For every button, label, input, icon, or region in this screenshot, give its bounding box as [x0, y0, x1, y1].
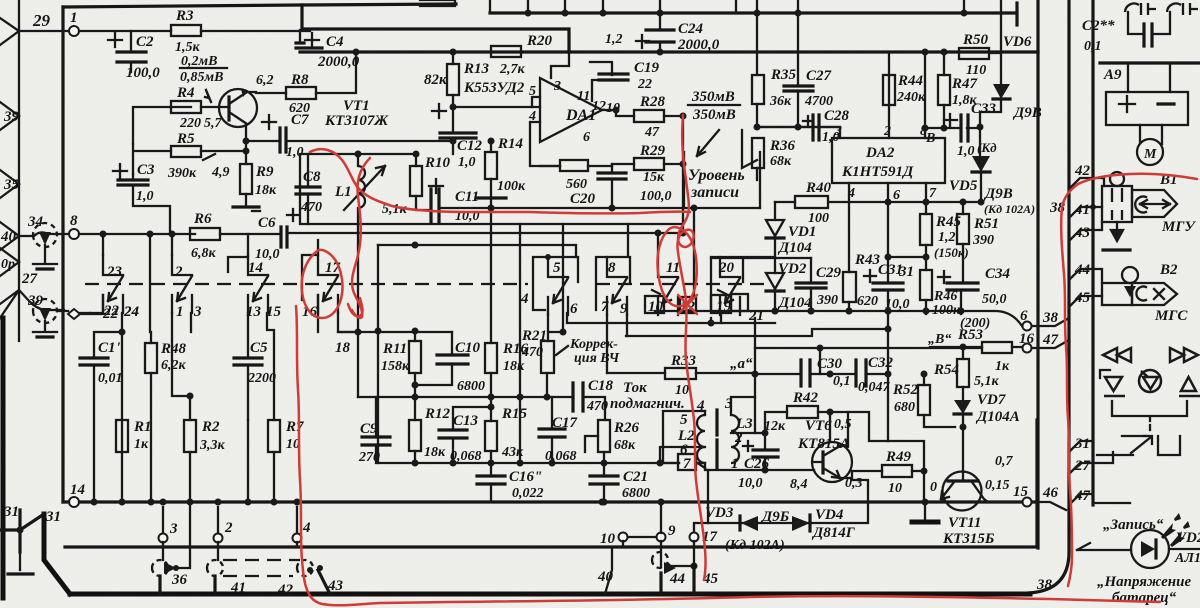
- svg-text:C4: C4: [326, 34, 344, 50]
- resistor R28: [634, 110, 664, 122]
- svg-text:VD4: VD4: [815, 507, 844, 523]
- svg-text:100,0: 100,0: [126, 65, 160, 81]
- svg-text:АЛ102: АЛ102: [1174, 551, 1200, 566]
- svg-text:(Кд: (Кд: [977, 140, 997, 155]
- capacitor C29: [810, 258, 812, 311]
- svg-text:0,047: 0,047: [858, 380, 891, 395]
- svg-text:15к: 15к: [643, 170, 665, 185]
- wire emitter to R9: [245, 151, 247, 164]
- svg-text:6,2: 6,2: [256, 73, 274, 88]
- wire 3 column: [190, 313, 192, 332]
- wire r35 c27 join: [757, 126, 840, 128]
- svg-text:DA2: DA2: [865, 145, 895, 161]
- svg-text:6,8к: 6,8к: [191, 246, 217, 261]
- svg-text:R2: R2: [201, 419, 220, 435]
- svg-text:1,0: 1,0: [957, 144, 975, 159]
- node a: [752, 371, 759, 378]
- svg-text:20: 20: [718, 260, 735, 276]
- capacitor C5: [247, 313, 249, 420]
- svg-text:C28: C28: [824, 108, 850, 124]
- svg-text:1: 1: [176, 304, 184, 320]
- svg-text:10: 10: [888, 481, 902, 496]
- head B2: [1122, 267, 1138, 283]
- battery A9 box: [1106, 92, 1188, 125]
- transistor VT6: [812, 442, 852, 482]
- svg-text:Д814Г: Д814Г: [811, 525, 856, 541]
- svg-text:6: 6: [893, 188, 900, 203]
- wire y348: [755, 347, 982, 349]
- svg-text:1,0: 1,0: [136, 189, 154, 204]
- resistor R16: [485, 343, 497, 373]
- node circles 10 9 17: [619, 533, 628, 542]
- switch 14: [248, 255, 268, 313]
- svg-text:22: 22: [103, 303, 120, 319]
- svg-text:C1": C1": [98, 340, 124, 356]
- svg-text:2: 2: [734, 430, 743, 446]
- red loop sw17: [302, 250, 343, 318]
- resistor R3: [171, 25, 201, 36]
- wire y311: [655, 311, 1022, 326]
- wire mic2 to diamond: [57, 311, 105, 314]
- resistor R46: [920, 270, 932, 300]
- svg-text:5,7: 5,7: [204, 116, 223, 131]
- svg-text:(Кд 102А): (Кд 102А): [984, 202, 1035, 216]
- svg-text:470: 470: [521, 345, 543, 360]
- svg-text:1к: 1к: [134, 437, 149, 452]
- head B1 box: [1102, 186, 1132, 222]
- top cut resistor: [420, 0, 455, 6]
- top right cap plate: [1001, 12, 1014, 14]
- svg-text:R29: R29: [639, 143, 666, 159]
- svg-text:5: 5: [529, 84, 536, 99]
- svg-text:6: 6: [583, 130, 590, 145]
- main vertical bus right panel: [1091, 0, 1094, 505]
- wire 18 terminal: [338, 313, 358, 332]
- dashed actuator line row1: [85, 283, 528, 285]
- svg-text:350мВ: 350мВ: [691, 89, 735, 105]
- capacitor C19: [590, 62, 612, 101]
- DA2 box: [832, 138, 945, 183]
- bus input y234: [79, 233, 195, 235]
- DA1 pin4: [530, 122, 560, 166]
- wire 31 stub: [0, 510, 44, 552]
- svg-text:Д9Б: Д9Б: [760, 509, 790, 525]
- svg-text:R6: R6: [193, 211, 212, 227]
- svg-text:6800: 6800: [457, 379, 485, 394]
- head coil symbol top1: [1125, 3, 1156, 15]
- boxed terminals: [645, 296, 664, 313]
- svg-text:Уровень: Уровень: [688, 167, 745, 184]
- svg-text:270: 270: [358, 450, 380, 465]
- svg-text:R49: R49: [885, 449, 912, 465]
- arrows: [1161, 523, 1176, 539]
- svg-text:L1: L1: [334, 184, 352, 200]
- wire R4 left loop: [133, 107, 191, 144]
- svg-text:R26: R26: [613, 420, 640, 436]
- bus y52 with C4: [300, 50, 569, 53]
- svg-text:1,5к: 1,5к: [175, 40, 201, 55]
- wire bus node14 y502: [63, 500, 1037, 503]
- transistor VT11: [962, 427, 964, 481]
- svg-text:C2: C2: [136, 34, 154, 50]
- wire R33: [607, 372, 755, 374]
- svg-text:C32: C32: [868, 355, 894, 371]
- svg-text:29: 29: [32, 11, 51, 30]
- microphone 2 dashed circle: [33, 299, 57, 323]
- svg-text:0,7: 0,7: [995, 454, 1014, 469]
- wire main block top border: [63, 4, 456, 7]
- capacitor C4: [305, 33, 319, 47]
- svg-text:40: 40: [0, 229, 17, 245]
- svg-text:7: 7: [929, 186, 937, 201]
- wire pin4 down to R43: [848, 183, 850, 272]
- svg-text:0,1: 0,1: [1084, 39, 1102, 54]
- wire y433 from a: [755, 432, 765, 434]
- svg-text:47: 47: [644, 125, 660, 140]
- connector stub 39a: [0, 102, 19, 130]
- node 8 diamond: [68, 309, 80, 319]
- resistor R35: [752, 75, 764, 104]
- resistor R1: [116, 420, 128, 452]
- svg-text:5: 5: [680, 412, 688, 428]
- core dashes: [715, 410, 718, 468]
- svg-text:1,2: 1,2: [605, 32, 623, 47]
- mic1 ground: [33, 245, 57, 264]
- capacitor C28: [813, 115, 819, 140]
- switch 2: [172, 255, 192, 313]
- svg-text:4: 4: [302, 520, 311, 536]
- switch 5: [548, 257, 568, 315]
- svg-text:18к: 18к: [255, 183, 277, 198]
- svg-text:записи: записи: [690, 184, 739, 201]
- svg-text:К553УД2: К553УД2: [463, 80, 525, 96]
- switch 11: [658, 257, 678, 315]
- wire 31: [888, 256, 926, 258]
- wire VD3 VD4: [694, 480, 868, 533]
- svg-text:0,1: 0,1: [833, 374, 851, 389]
- svg-text:0,022: 0,022: [512, 486, 544, 501]
- svg-text:23: 23: [106, 264, 123, 280]
- svg-text:R35: R35: [770, 67, 797, 83]
- svg-text:„В“: „В“: [928, 332, 951, 347]
- svg-text:R7: R7: [285, 419, 304, 435]
- capacitor C9: [375, 397, 377, 463]
- svg-text:R15: R15: [501, 406, 528, 422]
- switch 20 housing: [711, 257, 775, 310]
- svg-text:0,01: 0,01: [98, 371, 123, 386]
- svg-text:4,9: 4,9: [211, 165, 230, 180]
- resistor R48: [145, 343, 157, 373]
- transistor VT1: [219, 89, 257, 127]
- svg-text:31: 31: [898, 264, 914, 280]
- wire DA1 out: [602, 109, 616, 111]
- capacitor C10: [415, 332, 452, 385]
- long wire y202: [775, 201, 963, 203]
- svg-text:2000,0: 2000,0: [677, 37, 720, 53]
- wire pin6 down: [887, 183, 889, 441]
- svg-text:6,2к: 6,2к: [161, 358, 187, 373]
- wire R5 left: [133, 144, 171, 174]
- svg-text:6800: 6800: [622, 486, 650, 501]
- node 14: [69, 497, 79, 507]
- svg-text:КТ3107Ж: КТ3107Ж: [324, 113, 389, 129]
- svg-text:8: 8: [608, 260, 616, 276]
- head B1 arrow: [1132, 190, 1177, 217]
- bus y397: [358, 397, 605, 420]
- mic2 lead: [19, 290, 64, 310]
- svg-text:(Кд 102А): (Кд 102А): [725, 538, 785, 553]
- svg-text:МГУ: МГУ: [1161, 219, 1196, 235]
- wire bottom-left chamfer: [44, 514, 70, 594]
- svg-text:C5: C5: [250, 340, 268, 356]
- svg-text:31: 31: [3, 504, 19, 520]
- svg-text:VD1: VD1: [788, 224, 816, 240]
- wire y258: [711, 257, 811, 259]
- lamp 44: [652, 552, 668, 568]
- svg-text:C13: C13: [453, 413, 479, 429]
- resistor R2: [184, 420, 196, 452]
- wire uroven wiper down: [693, 208, 695, 296]
- buttons rewind left: [1103, 348, 1200, 396]
- svg-text:8: 8: [70, 213, 78, 229]
- capacitor C11: [431, 189, 439, 222]
- A9 border: [1100, 61, 1200, 64]
- connector stub 39b: [0, 290, 19, 318]
- svg-text:C21: C21: [623, 469, 648, 485]
- lower transformer wire: [707, 470, 709, 523]
- svg-text:36: 36: [171, 572, 188, 588]
- svg-text:0,5: 0,5: [834, 417, 852, 432]
- svg-text:C10: C10: [455, 340, 481, 356]
- capacitor C3: [133, 174, 170, 234]
- node circles 3 2 4: [159, 534, 168, 543]
- svg-text:R48: R48: [160, 341, 187, 357]
- svg-text:470: 470: [586, 399, 608, 414]
- resistor R15: [485, 421, 497, 451]
- svg-text:240к: 240к: [896, 90, 926, 105]
- svg-text:C29: C29: [816, 265, 842, 281]
- svg-text:C33: C33: [971, 101, 997, 117]
- svg-text:560: 560: [566, 177, 587, 192]
- svg-text:2,7к: 2,7к: [499, 62, 526, 77]
- top bus y13: [490, 11, 1015, 14]
- diode VD4: [792, 516, 810, 531]
- head coil symbol top2: [1167, 3, 1198, 15]
- svg-text:41: 41: [230, 580, 246, 596]
- resistor R20: [491, 46, 521, 57]
- svg-text:Д9В: Д9В: [1012, 105, 1042, 121]
- svg-text:C27: C27: [806, 68, 832, 84]
- svg-text:R47: R47: [951, 76, 978, 92]
- resistor R23 560: [560, 160, 588, 171]
- lamp 36: [152, 560, 168, 576]
- svg-text:390: 390: [816, 293, 838, 308]
- capacitor C27: [797, 13, 799, 127]
- svg-text:2200: 2200: [247, 371, 276, 386]
- diode VD7: [954, 400, 971, 414]
- svg-text:8,4: 8,4: [790, 477, 808, 492]
- R36 arrow wire: [742, 130, 757, 168]
- wire y374: [755, 373, 888, 375]
- resistor R9: [240, 164, 252, 194]
- svg-text:C18: C18: [588, 378, 614, 394]
- svg-text:R42: R42: [792, 390, 819, 406]
- terminal 7 box: [678, 454, 696, 470]
- resistor R26: [598, 420, 610, 452]
- svg-text:VT11: VT11: [948, 515, 981, 531]
- svg-text:Д9В: Д9В: [983, 186, 1013, 202]
- head B1 ground: [1111, 222, 1123, 241]
- node 8 circle: [69, 229, 79, 239]
- resistor R7: [268, 420, 280, 452]
- red cross sw12 box: [678, 295, 697, 314]
- wire R4 to base: [201, 106, 229, 108]
- svg-text:C30: C30: [817, 356, 843, 372]
- svg-text:68к: 68к: [614, 438, 636, 453]
- svg-text:100к: 100к: [497, 179, 526, 194]
- wire R8 to C4 bus: [316, 52, 356, 93]
- svg-text:подмагнич.: подмагнич.: [610, 396, 685, 412]
- svg-text:4700: 4700: [804, 94, 833, 109]
- capacitor C16: [490, 463, 492, 502]
- motor: [1137, 139, 1163, 165]
- wire inner border step to DA1: [302, 5, 569, 52]
- svg-text:390: 390: [972, 233, 994, 248]
- svg-text:12: 12: [592, 99, 606, 114]
- mic1 arrow: [39, 232, 51, 245]
- svg-text:C6: C6: [258, 215, 276, 231]
- svg-text:43: 43: [327, 578, 344, 594]
- node 1 circle: [69, 26, 79, 36]
- bus y463: [378, 462, 679, 464]
- svg-text:VD5: VD5: [949, 178, 978, 194]
- red annotation main curve: [352, 158, 370, 318]
- svg-text:2: 2: [224, 520, 233, 536]
- switch 5 housing: [533, 257, 578, 310]
- resistor R29: [634, 158, 664, 170]
- ground bar R14: [476, 196, 506, 199]
- svg-text:16: 16: [1019, 331, 1035, 347]
- wire jog down: [888, 441, 924, 502]
- svg-text:220: 220: [179, 116, 201, 131]
- svg-text:6: 6: [570, 301, 578, 317]
- svg-text:14: 14: [70, 482, 86, 498]
- svg-text:38: 38: [1042, 310, 1059, 326]
- L3 top wire: [731, 397, 755, 415]
- lamp 43: [297, 560, 313, 576]
- svg-text:18: 18: [335, 340, 351, 356]
- capacitor C30: [801, 360, 810, 386]
- svg-text:350мВ: 350мВ: [692, 107, 736, 123]
- svg-text:38: 38: [1036, 577, 1053, 593]
- svg-text:11: 11: [577, 89, 590, 104]
- svg-text:10: 10: [600, 531, 616, 547]
- diode VD2: [766, 273, 784, 289]
- svg-text:0,15: 0,15: [985, 478, 1010, 493]
- capacitor C2: [130, 31, 132, 72]
- svg-text:VD6: VD6: [1003, 34, 1032, 50]
- svg-text:C34: C34: [985, 266, 1011, 282]
- capacitor C20: [611, 164, 613, 208]
- svg-text:R8: R8: [290, 72, 309, 88]
- resistor R33: [665, 368, 696, 379]
- wire collector up to R8: [247, 92, 286, 93]
- capacitor C33: [925, 127, 980, 129]
- svg-text:„Напряжение: „Напряжение: [1097, 574, 1191, 590]
- corner mark: [1100, 370, 1110, 378]
- svg-text:43к: 43к: [501, 445, 524, 460]
- resistor R4: [171, 101, 201, 113]
- svg-text:22: 22: [637, 77, 652, 92]
- resistor R47: [938, 75, 950, 105]
- wire node1 lead: [19, 30, 68, 32]
- connector stub 29: [0, 18, 19, 45]
- svg-text:R43: R43: [854, 252, 881, 268]
- wire left thick edge bar: [1, 318, 6, 598]
- wire bus2 y547: [65, 420, 1037, 547]
- diode VD3: [741, 516, 758, 531]
- svg-text:КТ815А: КТ815А: [797, 436, 850, 452]
- svg-text:0: 0: [930, 480, 937, 495]
- svg-text:0,85мВ: 0,85мВ: [180, 70, 223, 85]
- resistor R6: [190, 228, 220, 240]
- svg-text:3: 3: [553, 79, 561, 94]
- capacitor C1: [80, 358, 108, 365]
- DA2 pin8: [924, 128, 926, 138]
- op-amp DA1: [540, 78, 602, 142]
- inductor L1: [358, 166, 365, 208]
- svg-text:46: 46: [1042, 485, 1059, 501]
- wire R13 bottom to DA1: [453, 106, 540, 108]
- mic2 arrow: [39, 308, 51, 321]
- svg-text:C8: C8: [303, 169, 321, 185]
- svg-text:R1: R1: [133, 419, 152, 435]
- svg-text:5: 5: [553, 260, 561, 276]
- resistor R12: [409, 420, 421, 451]
- connector stub 35: [0, 170, 19, 198]
- wire y470: [705, 468, 814, 470]
- svg-text:1,0: 1,0: [458, 155, 476, 170]
- svg-text:R4: R4: [176, 85, 195, 101]
- svg-text:18к: 18к: [503, 359, 525, 374]
- svg-text:C7: C7: [291, 112, 309, 128]
- diode VD5: [979, 127, 981, 156]
- svg-text:68к: 68к: [770, 154, 792, 169]
- wire left outer border vertical: [18, 0, 20, 341]
- svg-text:4: 4: [528, 109, 536, 124]
- svg-text:C19: C19: [634, 60, 660, 76]
- svg-text:100к: 100к: [932, 303, 961, 318]
- resistor R40: [795, 196, 828, 208]
- bus 502 dots: [91, 499, 98, 506]
- svg-text:R9: R9: [255, 164, 274, 180]
- connector stub or: [0, 248, 19, 276]
- wire divider vertical between main and right panel: [1036, 0, 1039, 548]
- ground under 925: [924, 502, 926, 519]
- svg-text:7: 7: [683, 456, 691, 472]
- svg-text:C20: C20: [570, 191, 596, 207]
- connector stub 40: [0, 222, 19, 250]
- svg-text:158к: 158к: [381, 359, 410, 374]
- svg-text:15: 15: [266, 304, 282, 320]
- capacitor C12: [440, 133, 476, 138]
- red right panel curve: [1061, 184, 1078, 586]
- svg-text:C9: C9: [360, 421, 378, 437]
- capacitor C8: [307, 154, 309, 224]
- wire node1 to R3: [79, 30, 171, 32]
- svg-text:27: 27: [21, 271, 38, 287]
- vertical x358: [357, 224, 359, 332]
